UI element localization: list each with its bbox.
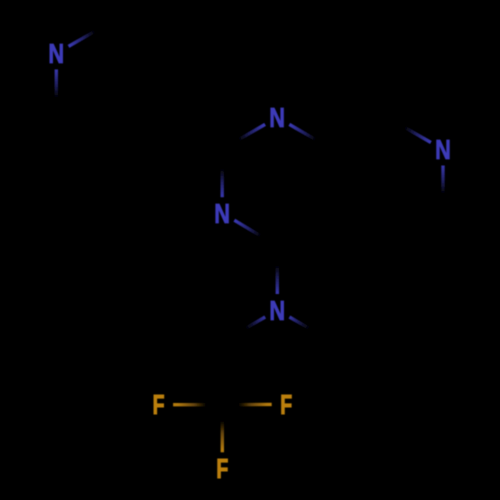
svg-text:N: N	[269, 103, 285, 134]
svg-text:F: F	[216, 454, 228, 485]
wire: bond N6 to C7 (right ring)	[441, 166, 444, 214]
wire: bond N(pyridyl) to C5' down	[55, 69, 58, 117]
node N3 pyrimidine left	[214, 198, 230, 229]
svg-text:N: N	[269, 295, 285, 326]
wire: bond C5 to N6 (right ring)	[388, 118, 431, 143]
wire: bond C2 to N3	[220, 149, 223, 197]
svg-text:N: N	[435, 134, 451, 165]
wire: bond N3 to C4	[234, 220, 277, 246]
wire: bond N(amine) to CH2	[222, 317, 265, 342]
node N pyridyl	[48, 39, 64, 70]
node N amine	[269, 295, 285, 326]
svg-text:F: F	[153, 390, 165, 421]
svg-text:N: N	[48, 39, 64, 70]
wire: bond C4 to N(amine)	[276, 246, 279, 294]
wire: bond C(q) to F bottom	[221, 405, 224, 453]
svg-text:F: F	[280, 390, 292, 421]
wire: bond N(pyridyl) to C3' up-right	[69, 22, 112, 47]
wire: bond N1 to C2	[222, 124, 265, 149]
wire: bond N1 to C8a	[289, 124, 332, 149]
wire: bond N(amine) to CH3	[289, 317, 332, 342]
node N1 pyrimidine top	[269, 103, 285, 134]
node N6 right ring	[435, 134, 451, 165]
wire: bond C(q) to F right	[222, 403, 271, 407]
node F left	[153, 390, 165, 421]
svg-text:N: N	[214, 198, 230, 229]
wire: bond C(q) to F left	[173, 403, 222, 407]
node F right	[280, 390, 292, 421]
node F bottom	[216, 454, 228, 485]
